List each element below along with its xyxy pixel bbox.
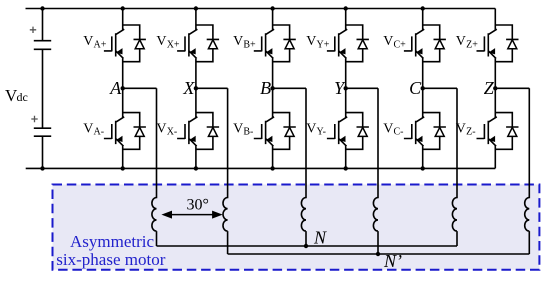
svg-text:Y+: Y+ (317, 39, 330, 50)
svg-text:V: V (456, 122, 466, 137)
svg-text:C+: C+ (394, 39, 407, 50)
svg-text:V: V (306, 34, 316, 49)
svg-text:X+: X+ (167, 39, 180, 50)
svg-text:Y-: Y- (317, 127, 326, 138)
svg-text:X: X (182, 78, 195, 98)
svg-text:A-: A- (94, 127, 105, 138)
svg-text:C: C (409, 78, 422, 98)
svg-text:V: V (156, 122, 166, 137)
svg-text:B+: B+ (243, 39, 256, 50)
svg-text:B-: B- (243, 127, 253, 138)
svg-text:Z+: Z+ (466, 39, 478, 50)
svg-text:V: V (233, 34, 243, 49)
svg-text:Z-: Z- (466, 127, 475, 138)
svg-text:V: V (83, 34, 93, 49)
svg-text:N: N (313, 228, 327, 248)
svg-text:X-: X- (167, 127, 178, 138)
svg-text:Asymmetric: Asymmetric (70, 232, 154, 251)
svg-text:A: A (109, 78, 122, 98)
svg-text:V: V (83, 122, 93, 137)
svg-text:six-phase motor: six-phase motor (56, 250, 165, 269)
svg-text:V: V (306, 122, 316, 137)
svg-text:Z: Z (484, 78, 495, 98)
svg-text:V: V (233, 122, 243, 137)
svg-text:V: V (456, 34, 466, 49)
svg-text:dc: dc (17, 90, 28, 104)
svg-text:30°: 30° (187, 196, 209, 213)
svg-text:V: V (383, 34, 393, 49)
svg-text:V: V (156, 34, 166, 49)
svg-text:V: V (383, 122, 393, 137)
svg-text:B: B (260, 78, 271, 98)
svg-text:C-: C- (394, 127, 404, 138)
svg-text:A+: A+ (94, 39, 107, 50)
svg-text:N’: N’ (383, 251, 402, 271)
